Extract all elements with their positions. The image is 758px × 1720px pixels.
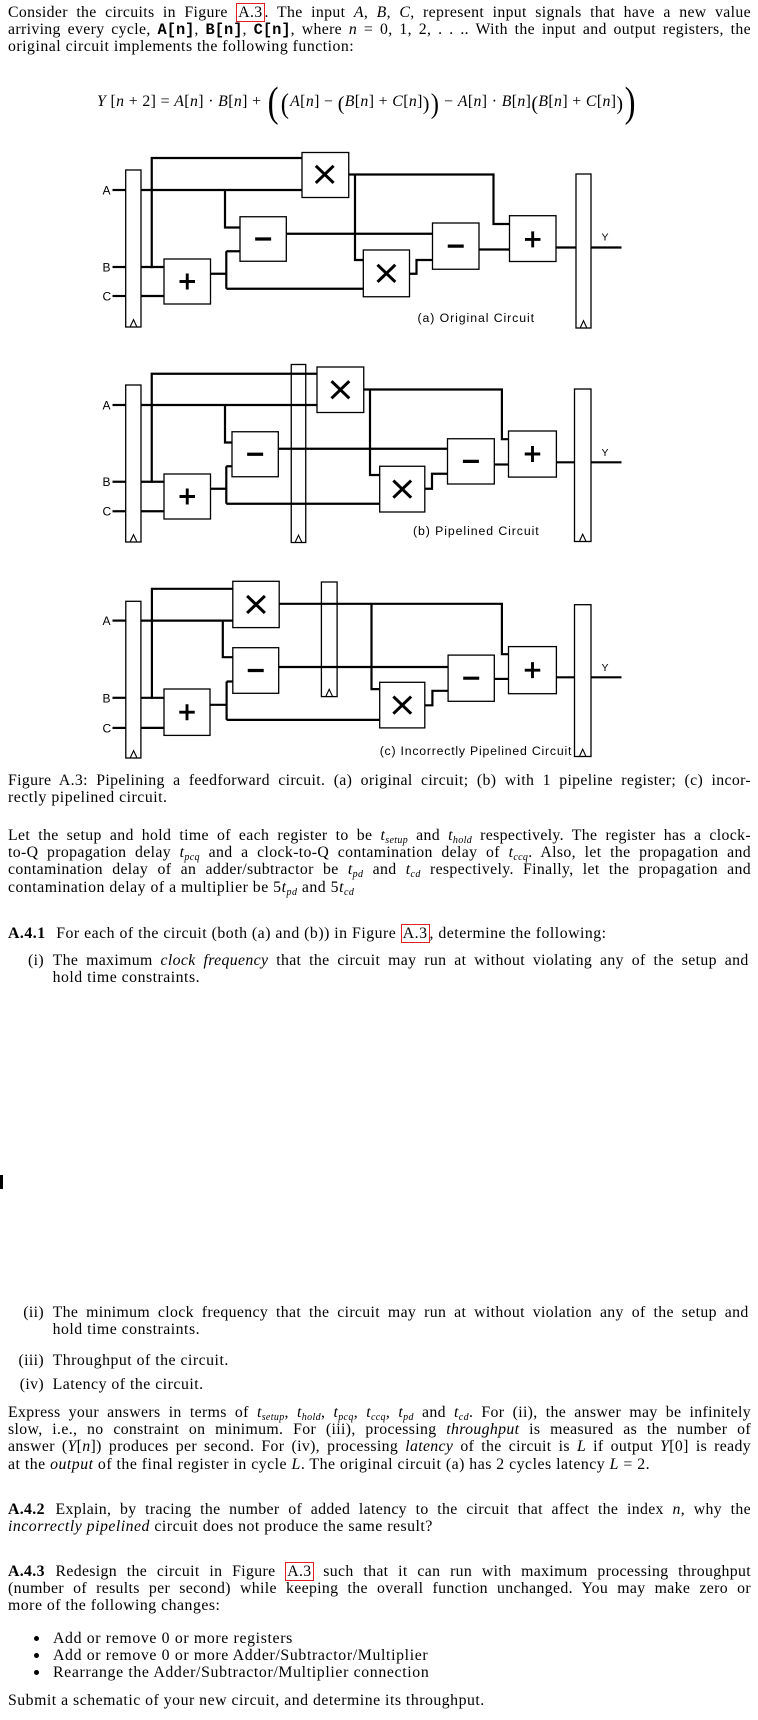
wire C to adder A1 (a) — [141, 295, 164, 297]
(ii) — [53, 1304, 749, 1338]
subtractor S2 box (c) — [448, 655, 494, 701]
node A input stub (c) — [113, 619, 126, 621]
node B input stub (c) — [113, 697, 126, 699]
wire subtractor S1 output to S2 (a) — [286, 233, 432, 235]
svg-text:C: C — [103, 721, 112, 735]
svg-text:(c) Incorrectly Pipelined Circ: (c) Incorrectly Pipelined Circuit — [380, 744, 572, 758]
input register (a) — [126, 170, 141, 327]
adder A2 box (c) — [509, 647, 557, 694]
wire adder A2 output to output register (c) — [556, 676, 574, 678]
wire M1 output branch to multiplier M2 (c) — [372, 604, 380, 689]
wire A to multiplier M1 (b) — [141, 404, 317, 406]
subtractor S1 box (b) — [232, 432, 278, 477]
adder A2 box (b) — [509, 431, 557, 477]
node B input stub (a) — [113, 266, 126, 268]
multiplier M2 box (b) — [380, 466, 425, 512]
wire A to multiplier M1 (c) — [141, 619, 233, 621]
pipeline register (c) — [321, 582, 337, 697]
wire adder A1 output branches to S1 and M2 (c) — [210, 682, 380, 720]
wire B to adder A1 (b) — [141, 481, 164, 483]
node C input stub (a) — [113, 295, 126, 297]
svg-text:Y: Y — [602, 662, 609, 674]
multiplier M2 box (c) — [380, 682, 425, 728]
wire A branch to subtractor S1 (b) — [225, 405, 232, 443]
wire B up to multiplier M1 (c) — [152, 589, 233, 699]
bullets — [53, 1630, 753, 1647]
adder A1 box (c) — [164, 689, 210, 735]
output register (a) — [576, 174, 591, 328]
wire A to multiplier M1 (a) — [141, 189, 302, 191]
svg-text:A: A — [103, 399, 111, 413]
wire B to adder A1 (a) — [141, 266, 164, 268]
wire output Y (c) — [591, 676, 622, 678]
wire M1 output branch to multiplier M2 (b) — [370, 390, 380, 476]
wire adder A2 output to output register (b) — [556, 461, 574, 463]
wire multiplier M1 output to adder A2 (c) — [279, 604, 508, 654]
wire multiplier M1 output to adder A2 (b) — [364, 390, 509, 440]
wire multiplier M2 output to S2 (a) — [410, 260, 433, 274]
submit — [8, 1692, 751, 1709]
node C input stub (c) — [113, 727, 126, 729]
svg-text:B: B — [103, 475, 111, 489]
wire subtractor S1 output to S2 (b) — [278, 448, 447, 450]
wire A branch to subtractor S1 (c) — [223, 621, 233, 658]
A.4.1 — [8, 925, 751, 942]
black edge mark — [0, 1175, 3, 1189]
wire output Y (b) — [591, 461, 622, 463]
wire multiplier M1 output to adder A2 (a) — [349, 175, 510, 225]
multiplier M1 box (c) — [233, 581, 279, 627]
wire M1 output branch to multiplier M2 (a) — [355, 175, 363, 261]
adder A2 box (a) — [510, 216, 557, 262]
wire C to adder A1 (b) — [141, 510, 164, 512]
wire adder A2 output to output register (a) — [556, 246, 576, 248]
figure caption — [8, 772, 751, 806]
svg-text:Y: Y — [602, 232, 609, 244]
subtractor S2 box (b) — [448, 439, 495, 484]
svg-text:C: C — [103, 505, 112, 519]
svg-text:B: B — [103, 261, 111, 275]
adder A1 box (a) — [164, 259, 211, 304]
equation — [97, 102, 697, 104]
multiplier M1 box (b) — [317, 367, 364, 413]
subtractor S2 box (a) — [433, 223, 480, 269]
svg-text:A: A — [103, 184, 111, 198]
wire B up to multiplier M1 (a) — [152, 158, 302, 268]
adder A1 box (b) — [164, 474, 211, 519]
wire output Y (a) — [591, 246, 622, 248]
input register (c) — [126, 601, 141, 758]
svg-text:Y: Y — [602, 447, 609, 459]
svg-text:(a) Original Circuit: (a) Original Circuit — [418, 311, 535, 325]
node A input stub (b) — [113, 404, 126, 406]
node B input stub (b) — [113, 481, 126, 483]
A.4.3 — [8, 1563, 751, 1615]
express your answers — [8, 1404, 751, 1473]
wire B up to multiplier M1 (b) — [152, 374, 317, 483]
output register (b) — [575, 389, 592, 542]
subtractor S1 box (c) — [233, 648, 279, 694]
input register (b) — [126, 385, 141, 542]
wire multiplier M2 output to S2 (b) — [425, 474, 448, 489]
node A input stub (a) — [113, 189, 126, 191]
node C input stub (b) — [113, 510, 126, 512]
wire adder A1 output branches to S1 and M2 (b) — [211, 466, 380, 504]
wire A branch to subtractor S1 (a) — [225, 190, 240, 228]
wire subtractor S2 output to A2 (a) — [479, 248, 510, 250]
svg-text:(b) Pipelined Circuit: (b) Pipelined Circuit — [413, 524, 540, 538]
wire B to adder A1 (c) — [141, 697, 164, 699]
wire multiplier M2 output to S2 (c) — [425, 691, 448, 706]
multiplier M1 box (a) — [302, 153, 349, 198]
pipeline register (b) — [291, 365, 306, 543]
wire C to adder A1 (c) — [141, 727, 164, 729]
output register (c) — [575, 605, 592, 757]
multiplier M2 box (a) — [363, 250, 409, 297]
svg-text:A: A — [103, 614, 111, 628]
wire subtractor S1 output to S2 (c) — [279, 666, 448, 668]
svg-text:B: B — [103, 691, 111, 705]
svg-text:C: C — [103, 290, 112, 304]
black edge artifact mark — [0, 1175, 3, 1189]
paragraph 1 — [8, 4, 751, 56]
subtractor S1 box (a) — [240, 217, 286, 262]
wire subtractor S2 output to A2 (c) — [494, 678, 508, 680]
paragraph: let the setup — [8, 827, 751, 896]
A.4.2 — [8, 1501, 751, 1535]
wire adder A1 output branches to S1 and M2 (a) — [211, 251, 364, 289]
wire subtractor S2 output to A2 (b) — [494, 463, 508, 465]
